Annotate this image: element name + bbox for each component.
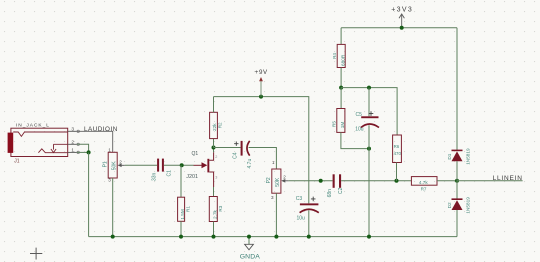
wire R1 to ground — [180, 221, 182, 236]
svg-text:GNDA: GNDA — [240, 254, 260, 261]
capacitor C4 flat plate — [241, 141, 243, 156]
wire node A to R6 — [341, 88, 397, 135]
J1 pin 1 — [68, 151, 77, 153]
junction 3V3 — [400, 26, 404, 30]
svg-text:1M: 1M — [340, 122, 345, 129]
svg-text:IN_JACK_L: IN_JACK_L — [16, 123, 50, 129]
junction R3 ground — [212, 235, 216, 239]
svg-text:50K: 50K — [111, 161, 117, 171]
wire C4 to P2 — [249, 148, 277, 170]
svg-text:2: 2 — [71, 140, 74, 146]
wire C5 bottom lead — [368, 125, 370, 148]
svg-text:50K: 50K — [275, 177, 281, 187]
svg-text:R4: R4 — [332, 53, 337, 59]
svg-text:C4: C4 — [233, 152, 239, 159]
svg-text:2: 2 — [283, 174, 286, 179]
svg-text:C5: C5 — [356, 112, 363, 118]
connector J1 jack body — [11, 128, 68, 156]
svg-text:68n: 68n — [327, 189, 333, 198]
resistor R4 body — [337, 44, 345, 67]
connector J1 sleeve block — [8, 133, 14, 153]
capacitor C4 curved plate — [247, 141, 250, 156]
capacitor C5 top plate — [361, 116, 378, 118]
svg-text:D2: D2 — [447, 202, 452, 208]
capacitor C5 curved plate — [361, 124, 379, 128]
junction diode node — [455, 179, 459, 183]
origin cross marker — [30, 248, 42, 260]
svg-text:+3V3: +3V3 — [391, 7, 413, 14]
svg-text:C1: C1 — [167, 170, 173, 177]
wire jack to ground bus — [88, 152, 90, 236]
wire P1 pin3 to ground — [112, 178, 114, 237]
wire GNDA stub — [248, 237, 250, 245]
junction gate node — [180, 163, 184, 167]
junction P1 ground — [111, 235, 115, 239]
wire P2 pin3 to ground — [275, 193, 277, 236]
wire R6 to signal — [396, 163, 398, 181]
wire C2 to R7 — [341, 180, 411, 182]
transistor Q1 gate arrow — [202, 162, 208, 168]
diode D1 triangle — [452, 151, 463, 161]
svg-text:10u: 10u — [355, 126, 364, 132]
wire LAUDIOIN jack pin3 to P1 — [77, 131, 113, 152]
wire C1 to Q1 gate — [164, 164, 194, 166]
junction P2 ground — [274, 235, 278, 239]
svg-text:2.7k: 2.7k — [212, 209, 217, 219]
wire node A to R5 — [340, 88, 342, 109]
svg-text:4.7u: 4.7u — [247, 159, 253, 169]
resistor R7 body — [411, 177, 437, 186]
wire Q1 source to R3 — [213, 187, 215, 197]
power +9V symbol — [260, 81, 262, 97]
junction C3 ground — [307, 235, 311, 239]
potentiometer P2 body — [272, 169, 281, 193]
svg-text:10u: 10u — [297, 216, 306, 222]
connector J1 tip contact — [13, 132, 68, 136]
J1 pin 3 — [68, 130, 77, 132]
wire ground bus — [89, 236, 457, 238]
svg-text:LLINEIN: LLINEIN — [493, 175, 523, 182]
capacitor C1 plates — [157, 159, 159, 172]
svg-text:R1: R1 — [185, 206, 190, 212]
svg-text:R5: R5 — [332, 121, 337, 127]
svg-text:1: 1 — [108, 147, 111, 152]
resistor R2 body — [210, 112, 218, 138]
svg-text:1: 1 — [272, 160, 275, 165]
wire to LLINEIN — [457, 180, 523, 182]
wire jack pin2 to pin1 — [77, 144, 89, 152]
wire P2 wiper to C2 — [289, 180, 333, 182]
wire node to D2 — [456, 181, 458, 199]
svg-text:C3: C3 — [296, 196, 303, 202]
wire drain to R2 — [213, 139, 215, 148]
svg-text:1N5819: 1N5819 — [466, 197, 471, 214]
ground GNDA symbol — [245, 244, 254, 250]
power +3V3 symbol — [401, 14, 403, 28]
wire node B to ground — [368, 149, 370, 237]
capacitor C3 curved plate — [300, 209, 319, 213]
svg-text:680R: 680R — [340, 54, 345, 66]
wire 9V rail and C3 branch — [214, 97, 309, 204]
svg-text:3: 3 — [71, 127, 74, 133]
junction GNDA — [247, 235, 251, 239]
junction node A — [339, 86, 343, 90]
svg-text:R2: R2 — [217, 122, 222, 128]
svg-text:D1: D1 — [447, 153, 452, 159]
C5 plus sign — [369, 111, 374, 116]
svg-text:Q1: Q1 — [192, 151, 199, 157]
capacitor C3 top plate — [300, 203, 319, 205]
connector J1 sleeve contact — [38, 149, 68, 153]
wire 3V3 to R4 — [340, 28, 342, 45]
svg-text:4.7k: 4.7k — [419, 180, 429, 185]
resistor R5 body — [337, 109, 345, 133]
wire 3V3 rail — [341, 27, 457, 29]
svg-text:1.5M: 1.5M — [180, 209, 185, 220]
svg-text:P1: P1 — [102, 161, 108, 167]
svg-text:R7: R7 — [421, 186, 427, 191]
wire R4 to node A — [340, 68, 342, 88]
transistor Q1 source lead — [209, 172, 213, 187]
svg-text:J1: J1 — [14, 158, 19, 164]
svg-text:3: 3 — [215, 176, 217, 180]
C4 plus sign — [234, 142, 238, 146]
potentiometer P1 body — [108, 152, 117, 178]
junction node B ground — [367, 235, 371, 239]
wire Q1 drain to node — [213, 148, 215, 153]
svg-text:470: 470 — [394, 151, 402, 156]
diode D2 triangle — [452, 200, 463, 210]
wire C5 top lead — [368, 88, 370, 117]
wire C3 to ground — [308, 210, 310, 236]
capacitor C2 plates — [333, 174, 335, 188]
svg-text:R6: R6 — [394, 144, 400, 149]
resistor R1 body — [178, 197, 185, 221]
wire D1 to node — [456, 161, 458, 181]
junction 9V — [259, 95, 263, 99]
wire jack pin1 — [77, 151, 89, 153]
P1 wiper arrow — [121, 164, 125, 166]
transistor Q1 drain lead — [209, 152, 213, 160]
svg-text:J201: J201 — [186, 174, 198, 180]
C3 plus sign — [311, 197, 316, 202]
svg-text:3: 3 — [271, 195, 274, 200]
wire D2 to ground bus — [456, 210, 458, 237]
svg-text:33n: 33n — [151, 172, 157, 181]
junction bias node — [395, 179, 399, 183]
svg-text:R3: R3 — [218, 205, 223, 211]
junction R1 ground — [179, 235, 183, 239]
wire R7 to diode node — [437, 180, 457, 182]
resistor R6 body — [393, 135, 402, 163]
transistor Q1 channel bar — [207, 159, 209, 173]
wire drain node to C4 — [214, 147, 241, 149]
junction wiper node — [319, 179, 323, 183]
svg-text:1N5819: 1N5819 — [466, 148, 471, 165]
svg-text:2: 2 — [119, 159, 122, 164]
wire R5 to C5 bottom — [341, 132, 369, 148]
junction jack ground — [87, 150, 91, 154]
transistor Q1 gate pin — [194, 164, 203, 166]
wire gate to R1 — [180, 165, 182, 197]
svg-text:C2: C2 — [338, 187, 344, 194]
svg-text:3: 3 — [108, 178, 111, 183]
junction C5 top — [367, 86, 371, 90]
P2 wiper arrow — [285, 180, 289, 182]
junction drain node — [212, 146, 216, 150]
resistor R3 body — [209, 197, 217, 222]
J1 pin 2 — [68, 143, 77, 145]
wire R2 to 9V rail — [213, 97, 215, 113]
svg-text:1: 1 — [71, 148, 74, 154]
svg-text:P2: P2 — [266, 177, 272, 183]
diode D2 cathode bar — [452, 198, 463, 200]
connector J1 ring contact — [54, 144, 69, 149]
wire 3V3 to D1 — [456, 28, 458, 150]
junction node B — [367, 147, 371, 151]
wire P1 wiper to C1 — [125, 164, 157, 166]
diode D1 cathode bar — [452, 149, 463, 151]
svg-text:LAUDIOIN: LAUDIOIN — [84, 126, 118, 133]
svg-text:+9V: +9V — [255, 69, 268, 76]
svg-text:2: 2 — [215, 155, 217, 159]
wire R3 to ground — [213, 222, 215, 237]
